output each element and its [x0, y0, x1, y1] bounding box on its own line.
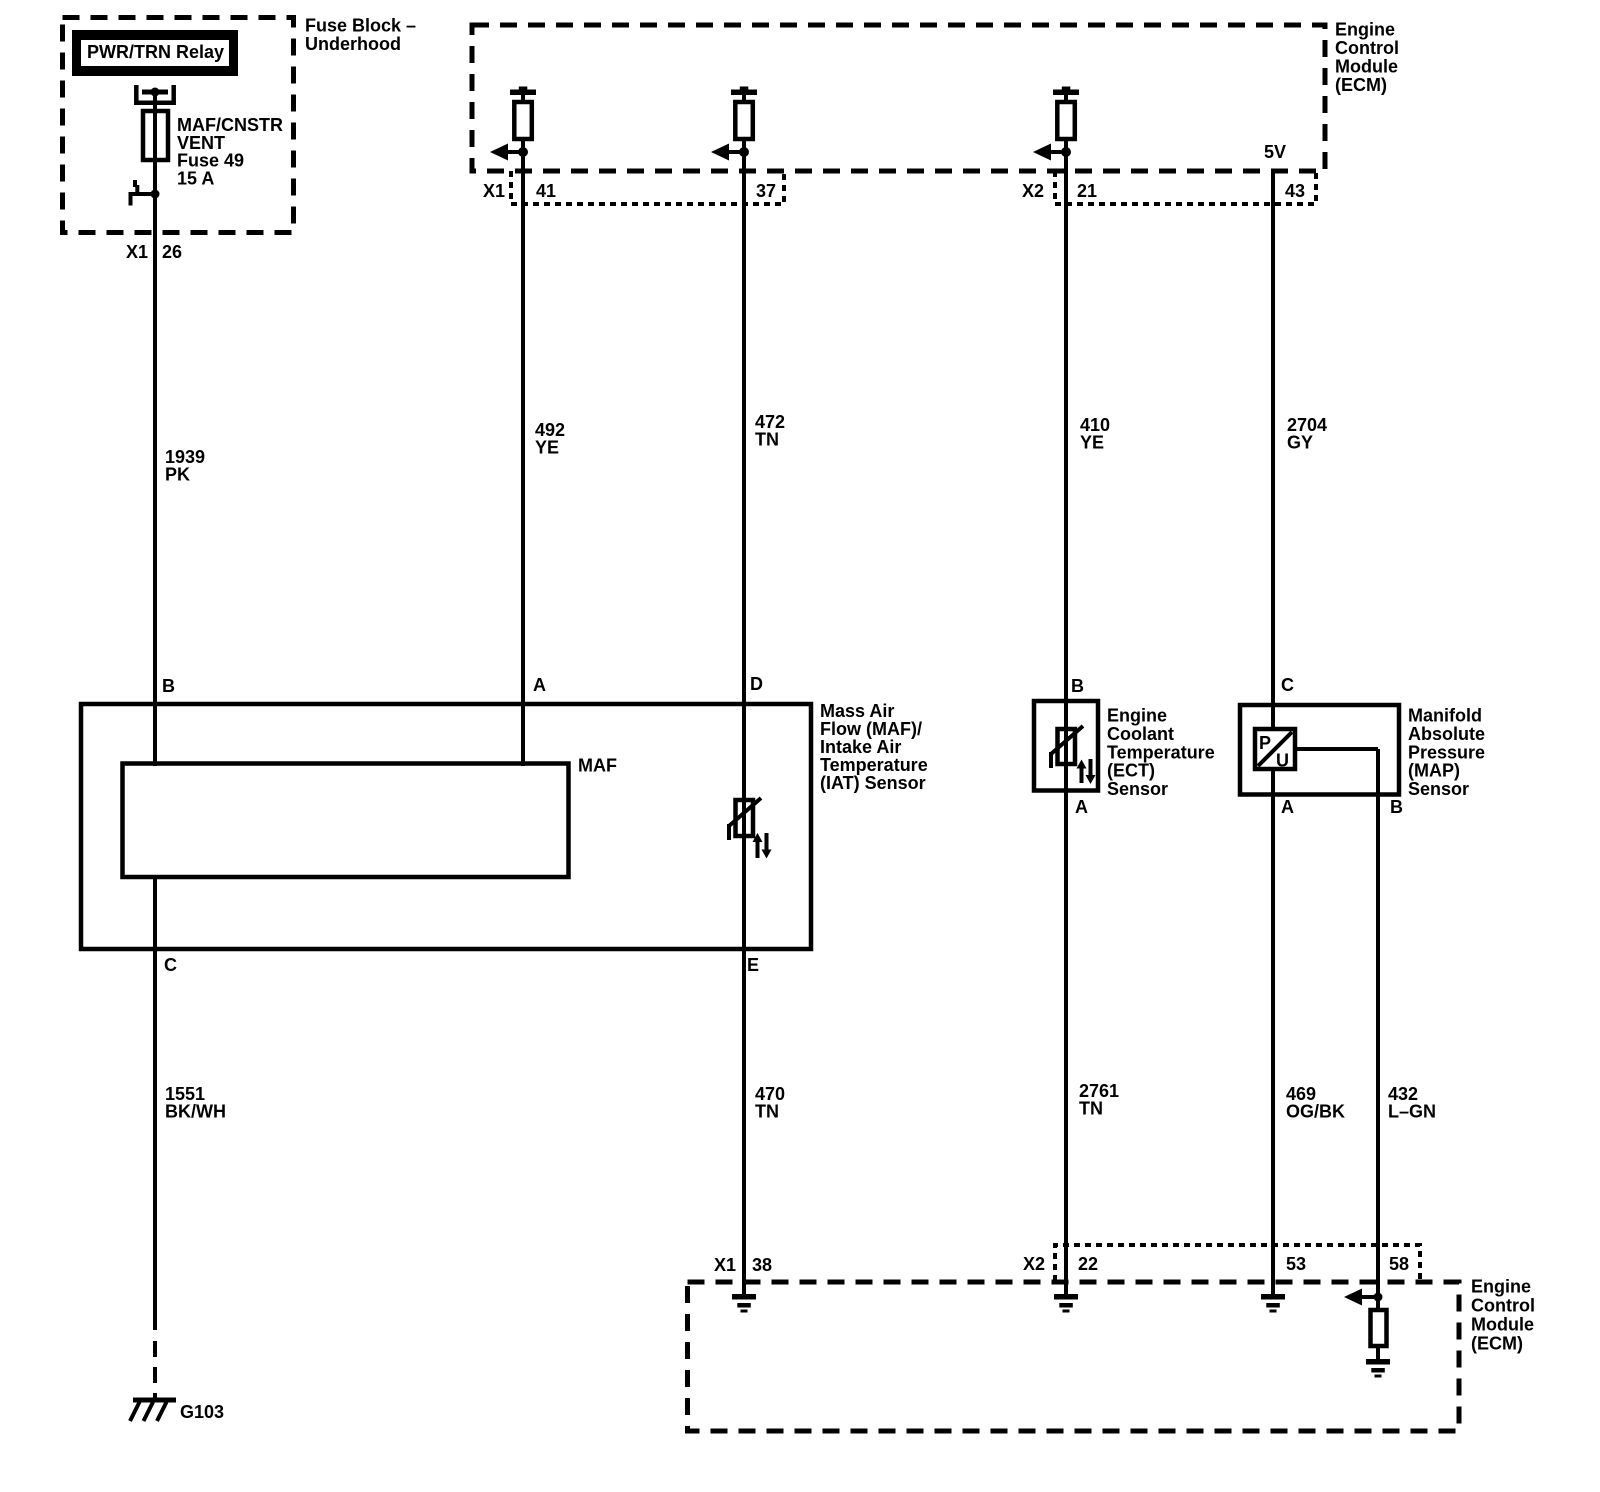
- label: Mass Air Flow (MAF)/ Intake Air Temperature (IAT) Sensor: [820, 701, 928, 793]
- svg-text:TN: TN: [1079, 1099, 1103, 1119]
- fuse label: [177, 115, 283, 189]
- svg-text:15 A: 15 A: [177, 169, 214, 189]
- svg-text:X1: X1: [126, 242, 148, 262]
- 5V label: [1264, 142, 1286, 162]
- svg-text:Pressure: Pressure: [1408, 742, 1485, 762]
- svg-text:Intake Air: Intake Air: [820, 737, 901, 757]
- svg-text:C: C: [164, 955, 177, 975]
- svg-text:B: B: [1390, 797, 1403, 817]
- connector pin box X1 (41,37): [511, 171, 784, 204]
- svg-text:Fuse 49: Fuse 49: [177, 151, 244, 171]
- svg-text:Mass Air: Mass Air: [820, 701, 894, 721]
- svg-text:MAF: MAF: [578, 756, 617, 776]
- svg-text:A: A: [1075, 797, 1088, 817]
- pin letters B A D: [162, 674, 763, 696]
- svg-text:Engine: Engine: [1471, 1277, 1531, 1297]
- connector pin box X2 (21,43): [1055, 171, 1316, 204]
- svg-text:43: 43: [1285, 181, 1305, 201]
- in-line connector on wire 1939: [131, 180, 160, 206]
- svg-text:X1: X1: [483, 181, 505, 201]
- relay PWR/TRN: [72, 30, 238, 76]
- svg-text:Flow (MAF)/: Flow (MAF)/: [820, 719, 922, 739]
- svg-text:PWR/TRN Relay: PWR/TRN Relay: [87, 42, 224, 62]
- svg-text:(ECT): (ECT): [1107, 761, 1155, 781]
- ECT thermistor: [1051, 726, 1083, 768]
- arrow junction pin 41: [490, 144, 528, 161]
- svg-text:A: A: [533, 675, 546, 695]
- wire label 472 TN: [755, 412, 785, 450]
- label: Fuse Block - Underhood: [305, 16, 416, 55]
- svg-text:D: D: [750, 674, 763, 694]
- connector terminal from relay: [136, 85, 173, 103]
- resistor in ECM (pin 21): [1053, 87, 1079, 140]
- ECM bottom dashed box: [688, 1282, 1460, 1431]
- svg-text:E: E: [747, 955, 759, 975]
- svg-text:38: 38: [752, 1255, 772, 1275]
- ground below resistor pin 58: [1366, 1359, 1390, 1378]
- wire 410 YE (ECM 21 to ECT B): [1064, 95, 1068, 1296]
- ECM top dashed box: [472, 25, 1325, 171]
- svg-text:Sensor: Sensor: [1408, 779, 1469, 799]
- wire 1939 PK (fuse to MAF B): [153, 92, 157, 766]
- wire 492 YE (ECM 41 to MAF A): [521, 95, 525, 766]
- label: Engine Control Module (ECM) bottom: [1471, 1277, 1535, 1354]
- svg-text:MAF/CNSTR: MAF/CNSTR: [177, 115, 283, 135]
- MAP internal wire to pin B: [1293, 749, 1378, 1361]
- label: Manifold Absolute Pressure (MAP) Sensor: [1408, 706, 1485, 800]
- svg-text:Sensor: Sensor: [1107, 779, 1168, 799]
- fuse block underhood dashed box: [63, 18, 294, 233]
- IAT variability arrows: [753, 833, 772, 859]
- wire 2704 GY (ECM 43 / 5V to MAP C): [1271, 169, 1275, 1296]
- svg-text:B: B: [162, 676, 175, 696]
- wire 1551 BK/WH (MAF C to G103): [153, 877, 157, 1400]
- pin label X1 26: [126, 242, 182, 262]
- svg-text:GY: GY: [1287, 433, 1313, 453]
- svg-text:Control: Control: [1471, 1296, 1535, 1316]
- svg-text:21: 21: [1077, 181, 1097, 201]
- svg-text:X2: X2: [1022, 181, 1044, 201]
- svg-text:Engine: Engine: [1335, 20, 1395, 40]
- resistor in ECM (pin 41): [510, 87, 536, 140]
- svg-text:L–GN: L–GN: [1388, 1102, 1436, 1122]
- svg-text:TN: TN: [755, 1102, 779, 1122]
- ECT sensor box: [1034, 701, 1098, 791]
- svg-text:Control: Control: [1335, 38, 1399, 58]
- pin labels X1 38: [714, 1255, 772, 1275]
- svg-text:(IAT) Sensor: (IAT) Sensor: [820, 773, 926, 793]
- wire label 492 YE: [535, 420, 565, 458]
- svg-text:P: P: [1259, 733, 1271, 753]
- MAF inner block: [123, 756, 618, 878]
- svg-text:Underhood: Underhood: [305, 34, 401, 54]
- svg-text:A: A: [1281, 797, 1294, 817]
- svg-text:Engine: Engine: [1107, 706, 1167, 726]
- wire 472 TN (ECM 37 to IAT D): [742, 95, 746, 1296]
- svg-text:OG/BK: OG/BK: [1286, 1102, 1345, 1122]
- resistor below pin 58: [1371, 1310, 1387, 1346]
- ECT variability arrows: [1077, 759, 1096, 784]
- svg-text:X2: X2: [1023, 1254, 1045, 1274]
- svg-text:Manifold: Manifold: [1408, 706, 1482, 726]
- ground G103: [130, 1398, 224, 1423]
- ECT pin letters B A: [1071, 676, 1088, 817]
- wire label 1939 PK: [165, 447, 205, 485]
- MAP pin letters C A B: [1281, 675, 1403, 817]
- arrow junction pin 58: [1344, 1289, 1383, 1306]
- wire label 470 TN: [755, 1084, 785, 1122]
- svg-text:YE: YE: [1080, 433, 1104, 453]
- svg-text:53: 53: [1286, 1254, 1306, 1274]
- svg-text:G103: G103: [180, 1402, 224, 1422]
- svg-text:Fuse Block –: Fuse Block –: [305, 16, 416, 36]
- pin letters C E: [164, 955, 759, 975]
- fuse 49 MAF/CNSTR VENT 15A: [143, 111, 168, 160]
- svg-text:(ECM): (ECM): [1335, 75, 1387, 95]
- IAT thermistor: [729, 798, 761, 840]
- svg-text:YE: YE: [535, 438, 559, 458]
- MAP P/U transducer symbol: [1255, 729, 1295, 771]
- connector pin box X2 (22,53,58): [1055, 1245, 1420, 1281]
- wire label 410 YE: [1080, 415, 1110, 453]
- svg-text:37: 37: [756, 181, 776, 201]
- label: Engine Coolant Temperature (ECT) Sensor: [1107, 706, 1215, 800]
- svg-text:X1: X1: [714, 1255, 736, 1275]
- svg-text:22: 22: [1078, 1254, 1098, 1274]
- svg-text:U: U: [1276, 751, 1289, 771]
- arrow junction pin 37: [711, 144, 749, 161]
- wire label 469 OG/BK: [1286, 1084, 1345, 1122]
- svg-text:Module: Module: [1471, 1315, 1534, 1335]
- arrow junction pin 21: [1033, 144, 1071, 161]
- svg-text:5V: 5V: [1264, 142, 1286, 162]
- svg-text:(MAP): (MAP): [1408, 761, 1460, 781]
- svg-text:Temperature: Temperature: [820, 755, 928, 775]
- wire label 2704 GY: [1287, 415, 1327, 453]
- svg-text:Absolute: Absolute: [1408, 724, 1485, 744]
- svg-text:Temperature: Temperature: [1107, 742, 1215, 762]
- label: Engine Control Module (ECM) top: [1335, 20, 1399, 96]
- pin labels X2 22 53 58: [1023, 1254, 1409, 1274]
- svg-text:BK/WH: BK/WH: [165, 1102, 226, 1122]
- ground at ECM pin 53: [1261, 1294, 1285, 1313]
- wire label 2761 TN: [1079, 1081, 1119, 1119]
- ground at ECM pin 22: [1054, 1294, 1078, 1313]
- svg-text:58: 58: [1389, 1254, 1409, 1274]
- svg-text:B: B: [1071, 676, 1084, 696]
- resistor in ECM (pin 37): [731, 87, 757, 140]
- MAF/IAT sensor outer box: [81, 704, 811, 949]
- svg-text:Coolant: Coolant: [1107, 724, 1174, 744]
- MAP sensor box: [1240, 705, 1399, 795]
- pin labels X1 41 37: [483, 181, 776, 201]
- svg-text:(ECM): (ECM): [1471, 1334, 1523, 1354]
- svg-text:Module: Module: [1335, 57, 1398, 77]
- svg-text:C: C: [1281, 675, 1294, 695]
- pin labels X2 21 43: [1022, 181, 1305, 201]
- svg-text:TN: TN: [755, 430, 779, 450]
- svg-text:41: 41: [536, 181, 556, 201]
- svg-text:26: 26: [162, 242, 182, 262]
- ground at ECM pin 38: [732, 1294, 756, 1313]
- wire label 1551 BK/WH: [165, 1084, 226, 1122]
- svg-text:PK: PK: [165, 465, 190, 485]
- wire label 432 L-GN: [1388, 1084, 1436, 1122]
